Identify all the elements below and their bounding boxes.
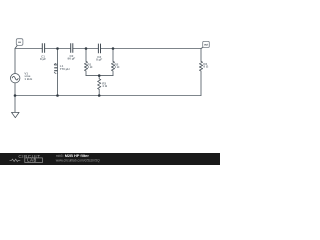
svg-text:8 µF: 8 µF bbox=[96, 57, 102, 61]
svg-text:out: out bbox=[204, 43, 208, 47]
svg-text:4 Ω: 4 Ω bbox=[115, 65, 121, 69]
svg-text:4 Ω: 4 Ω bbox=[102, 84, 108, 88]
svg-text:LAB: LAB bbox=[27, 158, 37, 163]
svg-text:www.circuitlab.com/c/5s2m5Q: www.circuitlab.com/c/5s2m5Q bbox=[56, 158, 100, 162]
svg-text:mb5: M2B HP filter: mb5: M2B HP filter bbox=[56, 153, 90, 158]
svg-text:1 kHz: 1 kHz bbox=[24, 77, 32, 81]
svg-text:8 Ω: 8 Ω bbox=[203, 64, 209, 68]
svg-text:4 Ω: 4 Ω bbox=[88, 65, 94, 69]
svg-text:96 µF: 96 µF bbox=[68, 57, 76, 61]
svg-text:8 µF: 8 µF bbox=[40, 57, 46, 61]
svg-text:770 µH: 770 µH bbox=[60, 67, 70, 71]
